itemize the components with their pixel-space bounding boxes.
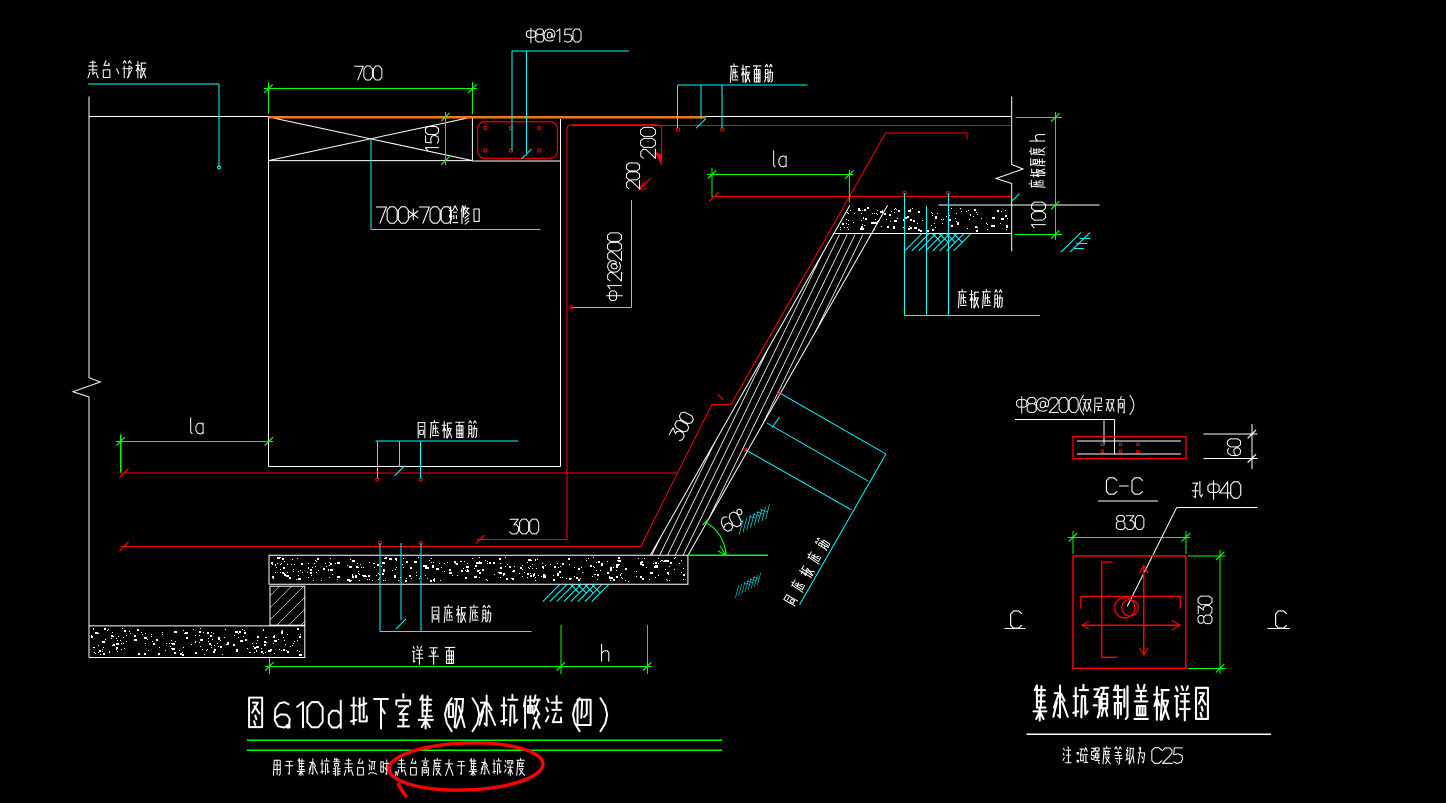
dim text 60: [1227, 439, 1240, 456]
slope label leaders (rotated): [779, 393, 886, 454]
ground line right: [939, 204, 1100, 206]
pit bottom: [269, 466, 561, 468]
text 300 pit: [510, 519, 539, 534]
text 孔Φ40: [1192, 481, 1241, 499]
hole circles: [1115, 598, 1135, 618]
dim text 830 top: [1116, 516, 1143, 530]
text 200 upper: [641, 127, 656, 158]
sloped wall upper edge: [650, 205, 850, 555]
text 底板厚度h: [1029, 135, 1045, 188]
leader to hole: [1177, 506, 1258, 508]
soil hatch on slope (rotated): [734, 505, 775, 535]
text Φ8@150: [526, 28, 581, 43]
right wall vertical with break: [996, 97, 1023, 252]
red bottom bar (la): [712, 196, 1012, 198]
dim slab thickness h: [1054, 112, 1056, 240]
text 详平面: [412, 646, 454, 664]
ground symbol: [1061, 233, 1091, 253]
cover plan square red: [1073, 556, 1186, 668]
dim text 830 right: [1198, 596, 1212, 623]
leader 承台筏板: [88, 83, 219, 85]
red dots top bar: [676, 128, 679, 131]
C-C bar red dots: [1101, 443, 1103, 445]
dim text la bottom: [191, 418, 203, 434]
dim 830 right: [1219, 550, 1221, 674]
section C letters: [1011, 611, 1022, 628]
red slope jog tick: [718, 394, 724, 400]
dim 830 top (cover plan): [1068, 536, 1190, 538]
text 300 slope: [669, 411, 695, 442]
bottom note: [273, 758, 524, 776]
leader phi8@150: [512, 50, 629, 52]
sloped wall lower edge: [688, 205, 888, 555]
red top rebar of raft: [572, 125, 1012, 127]
hatched wall stub below pit floor: [270, 586, 305, 625]
slope hatch lines: [652, 235, 871, 556]
blinding concrete stipple right: [840, 207, 1008, 232]
blinding bottom right: [834, 233, 1012, 235]
label leader white: [1015, 419, 1115, 421]
dim text 100: [1032, 202, 1046, 228]
leader 检修口: [370, 139, 372, 230]
leader 底板面筋: [678, 84, 808, 86]
pit right wall: [560, 119, 562, 467]
soil hatch under pit floor: [543, 585, 609, 602]
lower-left blinding outline: [89, 626, 305, 658]
red 300 leg at pit bottom: [477, 539, 567, 541]
red vertical phi12 bar: [566, 130, 568, 540]
stirrup bar dots: [484, 126, 487, 129]
dim 700: [264, 88, 477, 90]
leader 底板底筋: [904, 193, 906, 316]
dim la top: [707, 174, 853, 176]
red hook arrow lower (200 leg): [639, 178, 651, 190]
left wall (承台/筏板 edge) with break symbol: [73, 97, 100, 658]
cyan tick at end of red bar right: [1011, 194, 1020, 203]
pit left wall: [268, 161, 270, 467]
red pit top bar: [121, 472, 678, 474]
red arrow of hook: [655, 152, 663, 167]
plan bar vertical with arrows: [1143, 565, 1145, 655]
leader 同底板面筋: [376, 440, 518, 442]
text 底板底筋: [958, 289, 1002, 307]
pit floor concrete stipple: [271, 557, 685, 582]
text 底板面筋: [730, 64, 772, 82]
red slope bar lower part: [641, 473, 677, 547]
soil hatch under right blinding: [905, 234, 971, 251]
note 注:砼强度等级为C25: [1063, 746, 1183, 764]
dim text 150: [425, 126, 438, 150]
dim 150: [444, 112, 446, 165]
title underline double green: [247, 739, 722, 741]
dim la bottom: [116, 440, 273, 442]
text 200 lower: [626, 163, 639, 189]
text 同底板底筋 slope: [782, 537, 830, 606]
leader 同底板底筋 bottom: [379, 543, 381, 631]
text 60deg: [719, 508, 747, 532]
raft slab top line: [89, 116, 1012, 118]
dim 60 white: [1204, 433, 1258, 435]
C-C bar red outline: [1073, 437, 1186, 459]
C-C bar white rebar lines: [1077, 440, 1181, 442]
slab soffit right of box: [472, 160, 560, 162]
pit floor slab outline: [269, 555, 688, 584]
dim text la top: [774, 151, 786, 167]
lower-left blinding stipple: [91, 628, 302, 656]
red dots pit bars: [376, 478, 379, 481]
text 700*700检修口: [376, 206, 479, 224]
60 degree angle mark: [688, 554, 768, 556]
orange rebar line on slab top: [269, 116, 706, 118]
main title: [249, 694, 607, 731]
text Φ12@200: [607, 233, 623, 301]
red hand-drawn ellipse: [388, 740, 544, 797]
manhole X-box: [269, 117, 473, 161]
red la-bar with hooks: [678, 133, 967, 473]
plan bar vertical hooked: [1102, 562, 1118, 657]
dim phi12@200 cyan: [631, 200, 633, 307]
text 同底板面筋: [418, 420, 477, 437]
text 同底板底筋: [432, 605, 491, 622]
text 承台、筏板: [88, 61, 146, 78]
red dots on slope face: [777, 391, 780, 394]
red dots on bottom bar: [903, 191, 906, 194]
plan bar horizontal with arrows: [1082, 624, 1180, 626]
red pit bottom bar: [121, 546, 642, 548]
title 集水坑预制盖板详图: [1033, 685, 1207, 721]
text C-C: [1106, 478, 1142, 494]
text Φ8@200(双层双向): [1017, 395, 1134, 414]
stirrup box (red): [478, 122, 558, 159]
dim text h: [602, 644, 609, 661]
dim 详平面 / h: [265, 665, 652, 667]
plan bar horizontal hooked: [1081, 596, 1181, 608]
dim text 700: [355, 66, 382, 80]
red U-bar hook at pit corner (phi12): [572, 124, 656, 126]
